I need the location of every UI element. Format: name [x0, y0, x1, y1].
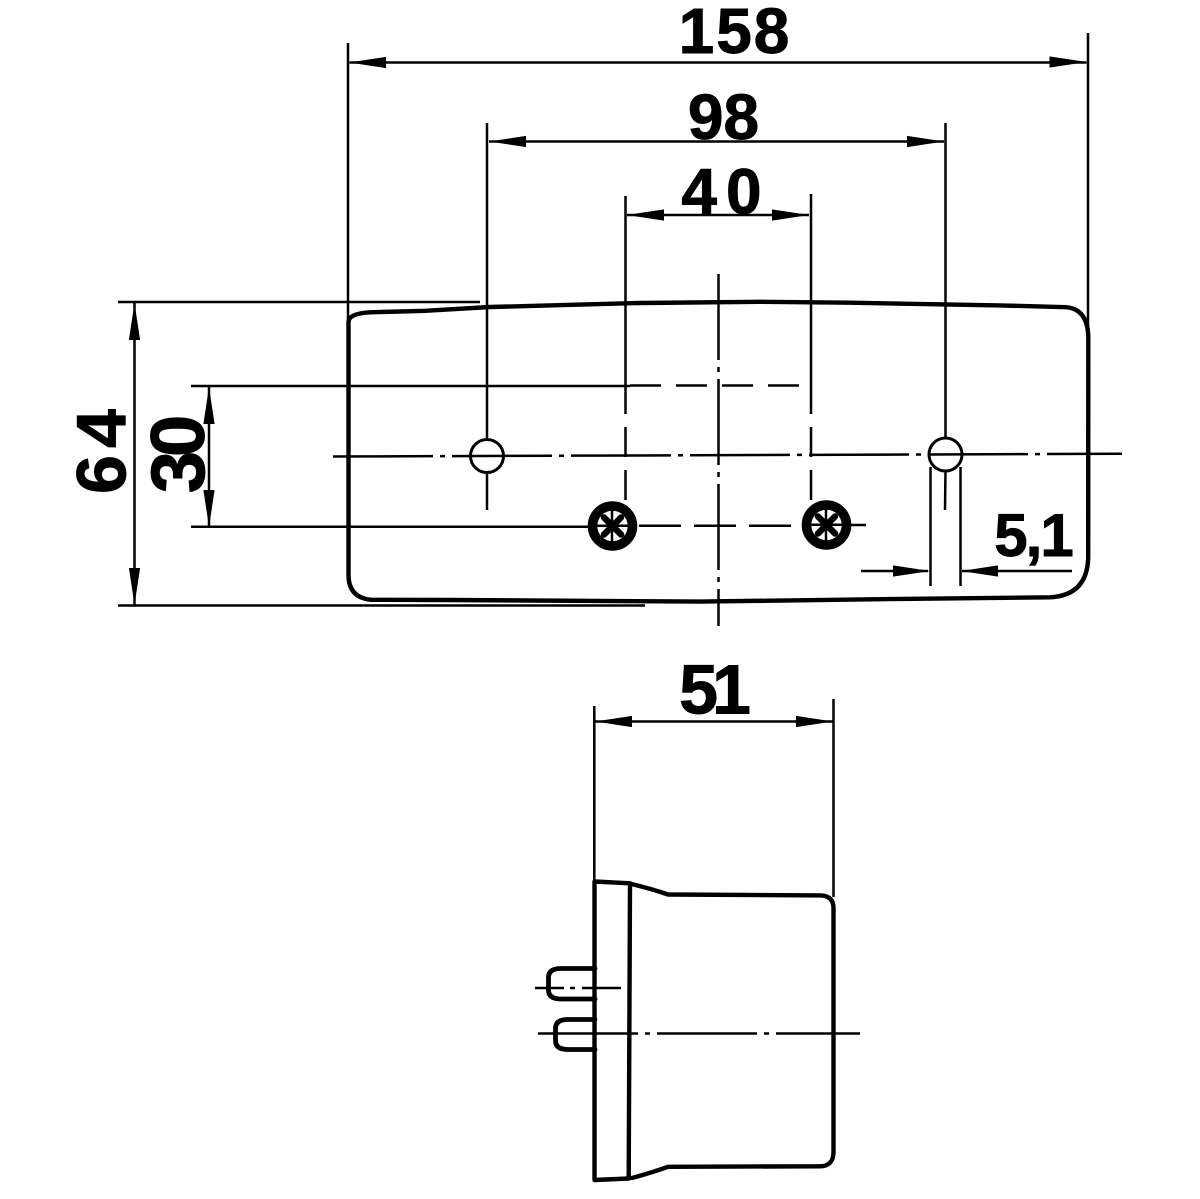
svg-text:40: 40: [681, 156, 770, 228]
svg-text:30: 30: [136, 417, 221, 493]
svg-text:51: 51: [679, 651, 749, 729]
svg-text:5,1: 5,1: [994, 502, 1072, 569]
svg-text:64: 64: [63, 402, 141, 494]
svg-text:158: 158: [679, 0, 792, 67]
svg-text:98: 98: [688, 81, 759, 153]
